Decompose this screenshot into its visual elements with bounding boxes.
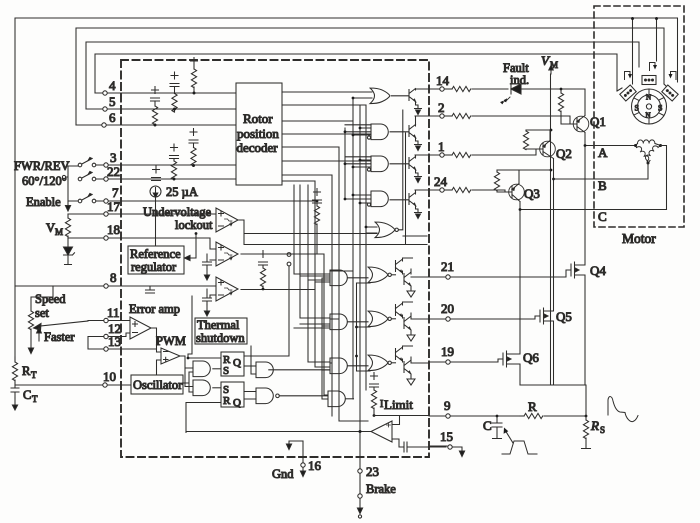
label Faster with arrow (37, 328, 76, 345)
nor gate G10 bottom2 (368, 311, 391, 327)
and gate G14 top3 (371, 156, 388, 172)
wire extra stubs G5 G6 G7 (294, 276, 330, 367)
wire decoder out F (282, 160, 371, 162)
pin 23 Brake (357, 464, 396, 518)
svg-text:decoder: decoder (237, 140, 279, 155)
npn Q10 top drive 4 (390, 190, 422, 219)
svg-text:Brake: Brake (366, 482, 396, 496)
svg-text:M: M (55, 227, 63, 237)
potentiometer speed (28, 297, 88, 354)
switch S1 FWR/REV (67, 157, 96, 166)
svg-text:R: R (590, 418, 599, 433)
resistor RT (12, 357, 37, 388)
svg-text:N: N (646, 112, 651, 120)
motor rotor circle (632, 89, 667, 124)
cap-res column pin3 (189, 129, 198, 168)
pin 21 (429, 259, 571, 279)
svg-text:Q6: Q6 (523, 350, 539, 365)
darlington pair D2 out20 (392, 302, 430, 341)
pnp Q1 (573, 89, 606, 146)
svg-text:60°/120°: 60°/120° (22, 174, 67, 188)
nand gate G4 with bubble (256, 388, 279, 404)
svg-text:Q4: Q4 (590, 263, 606, 278)
wire decoder out D (282, 133, 371, 135)
npn Q7 top drive 1 (392, 89, 422, 115)
wire G6 to G10 (348, 321, 369, 323)
pin 20 (429, 301, 540, 321)
svg-text:T: T (31, 370, 37, 380)
svg-text:Faster: Faster (44, 330, 75, 344)
wire lower gate extra stubs (322, 278, 330, 399)
winding coil left (637, 145, 651, 161)
capacitor C timing (483, 415, 502, 439)
and gate G5 drive1 (330, 270, 347, 286)
wire frame 3: pin5 loop to motor (86, 42, 639, 109)
wire fault line to Q1 emitter (551, 88, 585, 90)
svg-text:17: 17 (107, 199, 121, 214)
pin 6 (76, 110, 236, 127)
capacitor CT (11, 388, 38, 404)
wire pins 12-13 external loop (88, 337, 94, 350)
winding coil top (638, 140, 655, 144)
wire pot top to pin8 line (52, 286, 54, 297)
svg-text:2: 2 (438, 100, 445, 115)
npn Q9 top drive 3 (390, 155, 422, 183)
reference regulator block (128, 246, 184, 274)
nand gate G3 (251, 346, 273, 378)
wire comparator output feedback (186, 431, 371, 433)
wire error amp to pwm (151, 328, 161, 352)
pnp Q2 (540, 130, 572, 179)
and gate G6 drive2 (330, 314, 347, 330)
wire decoder out B (282, 105, 377, 390)
cap column above 25uA (152, 166, 161, 181)
wire comparator plus input (392, 416, 400, 425)
wire source bus (520, 385, 586, 416)
wire decoder out G (282, 175, 332, 416)
wire brake bus (360, 105, 366, 471)
svg-text:T: T (32, 394, 38, 404)
svg-text:3: 3 (110, 150, 117, 165)
svg-text:Thermal: Thermal (197, 318, 240, 332)
svg-text:B: B (598, 178, 607, 193)
wire G1 out to FF1 S (213, 368, 221, 370)
wire bundle vertical x345 (344, 128, 346, 199)
resistor mid column (313, 189, 322, 255)
wire fault bus pair (403, 133, 427, 245)
phase A line (585, 145, 636, 147)
wire decoder out E (282, 147, 368, 421)
winding coil right (644, 145, 658, 161)
wire bundle vertical x357 (357, 283, 371, 371)
nmos Q4 (571, 144, 606, 385)
wire FF2 Q to G4 (244, 392, 256, 400)
svg-text:S: S (658, 104, 662, 113)
pin 7 (94, 185, 318, 203)
svg-text:C: C (483, 418, 492, 433)
svg-text:A: A (598, 145, 608, 160)
npn Q8 top drive 2 (390, 116, 422, 151)
wire FF1 Q to G3 (244, 365, 256, 367)
sensor hook right (669, 72, 677, 80)
wire comparator feedback to FF2 R (186, 403, 221, 433)
svg-text:Q: Q (233, 357, 241, 369)
pin 17 (68, 199, 216, 216)
svg-text:14: 14 (436, 73, 450, 88)
motor dashed boundary box (594, 6, 684, 227)
svg-text:C: C (23, 388, 31, 402)
inverted input bubbles (367, 136, 370, 206)
phase C line (520, 209, 667, 211)
pin 1 (415, 139, 542, 158)
op-amp U2 undervoltage (216, 208, 238, 232)
oscillator block (131, 375, 183, 394)
nmos Q6 (503, 208, 539, 385)
wire thermal to latch R (188, 296, 221, 358)
svg-text:Q: Q (233, 397, 241, 409)
nor gate G16 fault (375, 222, 398, 238)
svg-text:4: 4 (109, 78, 116, 93)
wire Q3 emitter to VM (519, 169, 551, 171)
wire ref regulator input arrow (185, 232, 198, 261)
zener diode D1 (64, 238, 75, 265)
pin 2 (415, 100, 576, 124)
wire pin13 node (156, 344, 158, 346)
wire G7 to G11 (348, 365, 369, 367)
wire pwm out to and gates (180, 356, 193, 387)
pin 8 (15, 270, 216, 288)
pin 18 (68, 222, 216, 249)
pullup column R4 on dashed to pin4 (191, 58, 198, 95)
svg-text:25 µA: 25 µA (166, 185, 198, 199)
resistor Q1 pullup (558, 88, 576, 124)
svg-text:1: 1 (438, 139, 445, 154)
wire decoder out H (282, 180, 315, 182)
wire decoder out A (282, 91, 372, 93)
svg-text:10: 10 (103, 369, 116, 384)
svg-text:FWR/REV: FWR/REV (14, 159, 70, 173)
svg-text:8: 8 (110, 270, 117, 285)
svg-text:Gnd: Gnd (272, 467, 294, 481)
cap-res column C5R6 pin5 to pin6 (151, 87, 160, 127)
current source 25uA (150, 185, 198, 246)
svg-text:5: 5 (109, 94, 116, 109)
svg-text:V: V (46, 221, 55, 235)
svg-text:23: 23 (366, 464, 379, 479)
LED fault (500, 84, 551, 104)
svg-text:C: C (598, 209, 607, 224)
pin 10 (15, 369, 131, 387)
wire G8 output (346, 398, 354, 400)
op-amp U6 pwm comparator (161, 348, 180, 364)
outer V_M frame wire (left rail and top line to motor) (15, 18, 678, 361)
svg-text:set: set (35, 306, 49, 320)
svg-text:position: position (237, 126, 279, 141)
svg-text:13: 13 (108, 334, 121, 349)
and gate G7 drive3 (330, 358, 347, 374)
wire G2 out to FF2 S (213, 387, 221, 389)
wire phase B to winding center (647, 163, 649, 179)
svg-text:Oscillator: Oscillator (133, 378, 183, 392)
svg-text:I: I (380, 399, 383, 410)
and gate G1 latch S (193, 361, 210, 377)
svg-text:Q1: Q1 (590, 114, 606, 129)
label V_M right (541, 53, 558, 74)
wire sensor feeds (617, 19, 666, 92)
svg-text:22: 22 (107, 164, 120, 179)
pin 24 (415, 174, 511, 193)
pin 9 (429, 398, 520, 418)
cap ground below U4 (203, 289, 212, 316)
wire bundle h-stubs top gates (345, 98, 377, 227)
switch S3 Enable (68, 193, 96, 202)
switch S2 60/120 (78, 171, 96, 180)
wire G3 out to G5 (269, 369, 330, 371)
cap-res column pin3 to pin22 (170, 144, 179, 181)
pin 12 (94, 321, 130, 339)
resistor RS (582, 415, 606, 449)
svg-text:11: 11 (107, 305, 120, 320)
wire op outputs right (238, 220, 406, 395)
svg-text:PWM: PWM (156, 334, 186, 348)
svg-text:R: R (22, 364, 31, 378)
hall sensor left (620, 85, 636, 101)
svg-text:Motor: Motor (622, 231, 656, 246)
junction dots bundle (344, 97, 368, 229)
and gate G15 top4 (371, 191, 388, 207)
comparator U7 current sense (371, 421, 392, 442)
svg-text:Q5: Q5 (556, 309, 572, 324)
wire frame 4: pin4 loop to motor (95, 54, 617, 93)
pin 16 Gnd (272, 441, 322, 481)
waveform spike annotation (608, 397, 638, 422)
wire decoder out C (282, 98, 353, 399)
annotation arrow to C (504, 428, 513, 444)
pin 14 (415, 73, 508, 92)
wire phase C to winding right (661, 146, 667, 210)
pin 22 (94, 164, 236, 181)
cap-res column op area (259, 251, 268, 291)
op-amp U5 error amp (130, 317, 151, 339)
nor gate G9 bottom1 (368, 267, 391, 283)
resistor ILimit (370, 373, 414, 417)
nor gate G11 bottom3 (368, 355, 391, 371)
svg-text:S: S (600, 425, 605, 435)
wire G5 to G9 (348, 277, 369, 279)
pin 13 (94, 334, 156, 351)
svg-text:20: 20 (441, 301, 454, 316)
rotor position decoder block U1 (236, 83, 282, 185)
pin 3 (94, 150, 236, 167)
wire fault nor output up (399, 110, 403, 230)
thermal shutdown block (195, 318, 247, 345)
svg-text:9: 9 (444, 398, 451, 413)
nmos Q5 (540, 178, 572, 385)
wire U4 inputs (210, 284, 216, 298)
and gate G2 latch2 S (193, 380, 210, 396)
svg-text:18: 18 (107, 222, 120, 237)
svg-text:shutdown: shutdown (196, 331, 245, 345)
resistor Q2 pullup (523, 129, 552, 150)
ground below CT (12, 398, 17, 410)
IC dashed boundary box (121, 60, 429, 457)
wire G4 out to G8 (279, 395, 328, 397)
RS latch block FF2 (221, 382, 244, 409)
op-amp U4 (216, 277, 238, 301)
sensor hook mid (650, 63, 658, 71)
svg-text:S: S (223, 365, 229, 377)
wire FF1 Q2 up to terminals (244, 266, 289, 356)
darlington pair D1 out21 (392, 258, 430, 297)
wire pin9 line inside (374, 413, 429, 416)
cap on pin8 line (146, 286, 155, 293)
wire switch rail (65, 166, 68, 210)
svg-text:Speed: Speed (35, 292, 66, 306)
pnp Q3 (509, 170, 540, 210)
resistor Q3 pullup (494, 170, 519, 192)
wire winding nodes (636, 144, 661, 164)
svg-text:regulator: regulator (131, 260, 177, 274)
svg-text:Limit: Limit (384, 397, 413, 412)
pin 15 (429, 429, 465, 457)
wire osc to pwm (157, 360, 162, 375)
svg-text:R: R (528, 399, 537, 414)
svg-text:Rotor: Rotor (243, 111, 273, 126)
svg-text:24: 24 (434, 174, 448, 189)
or gate G12 top1 (370, 88, 390, 104)
pin 11 (88, 305, 130, 323)
svg-text:16: 16 (308, 458, 322, 473)
darlington pair D3 out19 (392, 346, 430, 385)
waveform pulse annotation (502, 441, 537, 454)
resistor R sense line (520, 399, 586, 419)
pin 5 (86, 94, 236, 111)
svg-text:Q3: Q3 (524, 186, 540, 201)
wire osc stubs (183, 372, 193, 392)
cap-res column C4R5 pin4 to pin5 (170, 72, 179, 112)
svg-text:Q2: Q2 (556, 146, 572, 161)
wire VM rail vertical (550, 74, 552, 385)
svg-text:19: 19 (441, 344, 454, 359)
svg-text:lockout: lockout (175, 218, 213, 232)
resistor RVM (65, 214, 70, 238)
RS latch block FF1 (221, 352, 244, 377)
hall sensor right (662, 85, 678, 101)
svg-text:6: 6 (109, 110, 116, 125)
svg-text:R: R (223, 395, 231, 407)
svg-text:7: 7 (112, 185, 119, 200)
hall sensor mid (642, 76, 656, 85)
wire frame 2: pin6 loop to motor (76, 28, 664, 125)
sensor hook left (625, 72, 633, 80)
and gate G8 drive4 (328, 391, 345, 407)
wire comparator minus via cap to pin15 (392, 439, 446, 452)
svg-text:Undervoltage: Undervoltage (143, 205, 211, 219)
op-amp U3 (216, 242, 238, 266)
svg-text:15: 15 (440, 429, 453, 444)
svg-text:Error amp: Error amp (129, 302, 180, 316)
cap ground below U3 (203, 254, 212, 280)
svg-text:21: 21 (441, 259, 454, 274)
phase B line (554, 178, 649, 180)
svg-text:Reference: Reference (130, 247, 181, 261)
wire decoder bottom drops (294, 181, 330, 362)
svg-text:N: N (646, 94, 651, 102)
svg-text:Enable: Enable (26, 195, 61, 209)
wire U3 inputs (210, 249, 216, 260)
and gate G13 top2 (371, 124, 388, 140)
pin 19 (429, 344, 503, 364)
svg-text:S: S (635, 104, 639, 113)
pin 4 (95, 78, 236, 95)
